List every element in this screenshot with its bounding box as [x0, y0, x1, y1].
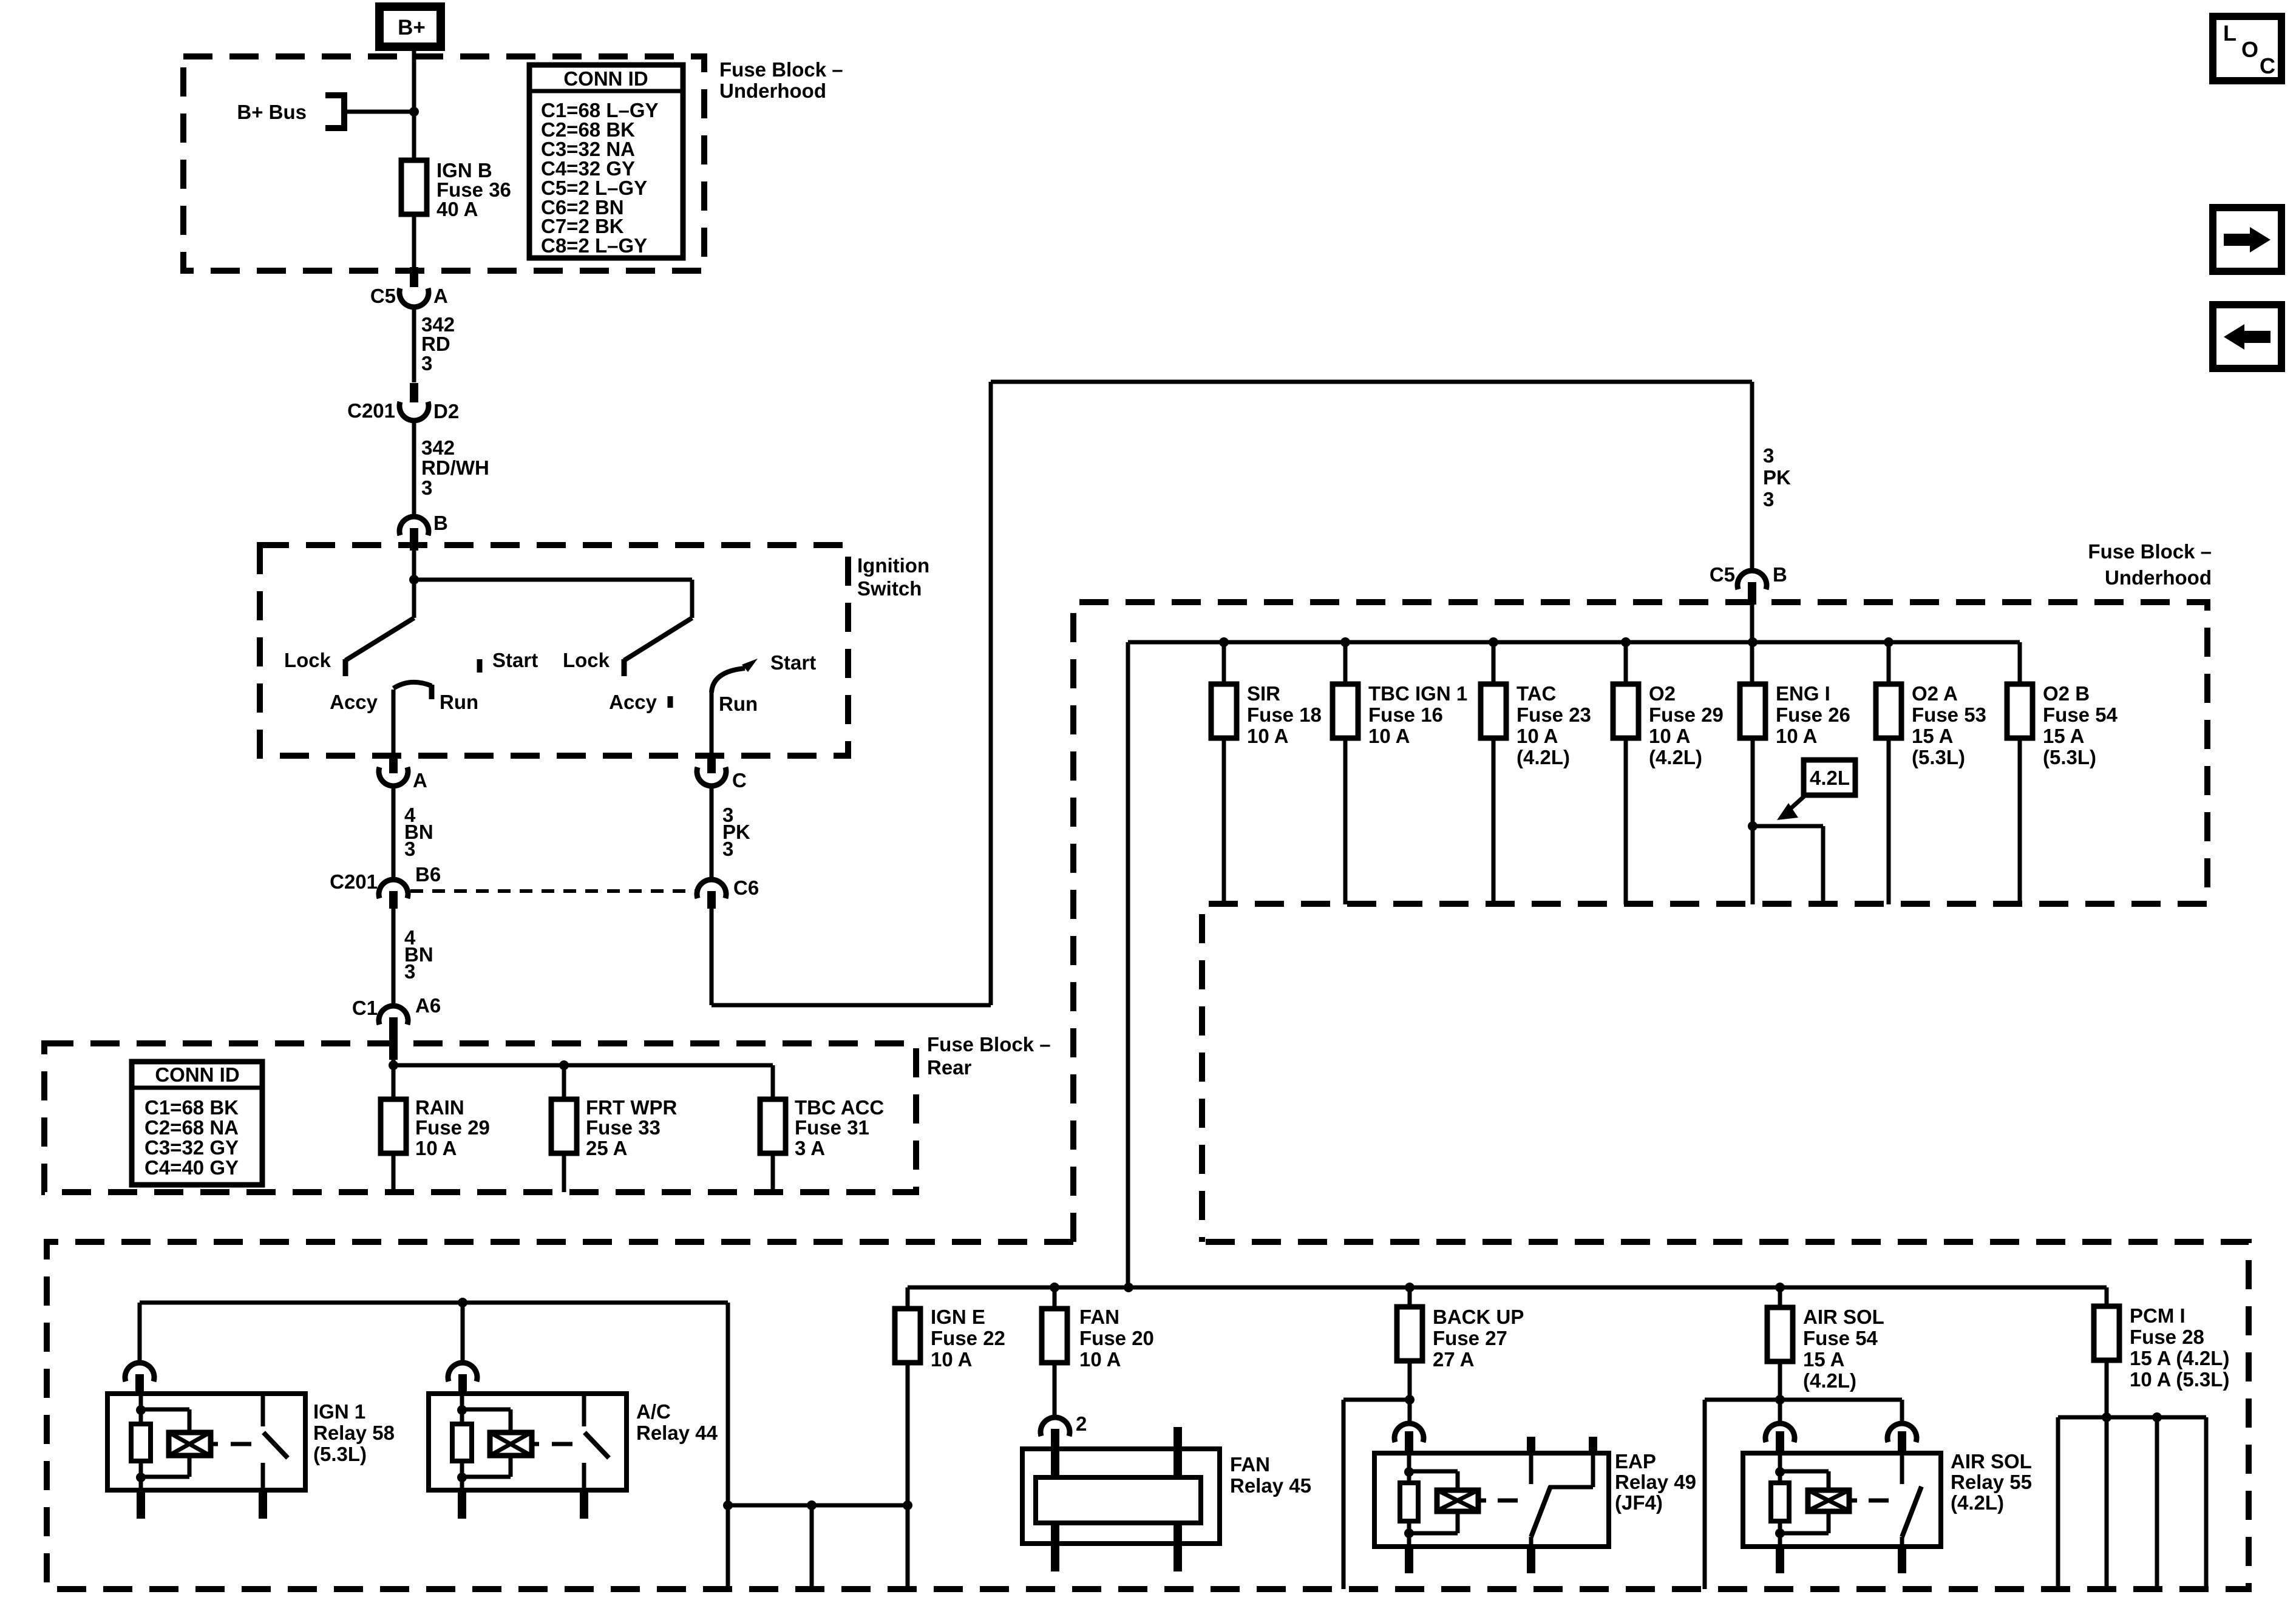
svg-text:O2 A: O2 A — [1912, 682, 1958, 705]
svg-text:PK: PK — [1763, 466, 1791, 489]
svg-text:27 A: 27 A — [1433, 1348, 1474, 1371]
svg-text:3 A: 3 A — [795, 1137, 825, 1159]
svg-text:(4.2L): (4.2L) — [1517, 746, 1570, 768]
svg-text:A/C: A/C — [636, 1400, 671, 1423]
svg-text:IGN 1: IGN 1 — [313, 1400, 365, 1423]
svg-text:O: O — [2241, 37, 2258, 62]
svg-text:3: 3 — [1763, 444, 1774, 467]
svg-text:Accy: Accy — [609, 691, 657, 713]
svg-text:Run: Run — [440, 691, 478, 713]
svg-text:Fuse 23: Fuse 23 — [1517, 703, 1591, 726]
svg-text:FAN: FAN — [1230, 1453, 1270, 1476]
svg-text:SIR: SIR — [1247, 682, 1280, 705]
svg-text:B+ Bus: B+ Bus — [237, 101, 307, 123]
svg-text:TBC ACC: TBC ACC — [795, 1096, 884, 1119]
svg-text:3: 3 — [404, 960, 415, 983]
svg-text:AIR SOL: AIR SOL — [1803, 1306, 1884, 1328]
svg-text:Fuse 54: Fuse 54 — [1803, 1327, 1878, 1349]
svg-text:15 A (4.2L): 15 A (4.2L) — [2130, 1347, 2229, 1369]
svg-text:Fuse Block –: Fuse Block – — [927, 1033, 1051, 1056]
svg-text:PCM I: PCM I — [2130, 1304, 2186, 1327]
svg-text:10 A: 10 A — [931, 1348, 972, 1371]
svg-text:C8=2 L–GY: C8=2 L–GY — [541, 234, 647, 257]
svg-text:ENG I: ENG I — [1776, 682, 1830, 705]
svg-text:C5: C5 — [370, 285, 396, 307]
svg-text:C6: C6 — [733, 876, 759, 899]
svg-text:Fuse 22: Fuse 22 — [931, 1327, 1005, 1349]
svg-text:Relay 45: Relay 45 — [1230, 1474, 1311, 1497]
svg-text:Fuse 27: Fuse 27 — [1433, 1327, 1507, 1349]
svg-text:10 A: 10 A — [1079, 1348, 1121, 1371]
svg-text:Rear: Rear — [927, 1056, 972, 1079]
svg-text:Relay 58: Relay 58 — [313, 1422, 395, 1444]
svg-text:RAIN: RAIN — [415, 1096, 464, 1119]
svg-text:(4.2L): (4.2L) — [1951, 1491, 2004, 1514]
svg-text:(4.2L): (4.2L) — [1649, 746, 1702, 768]
svg-text:Relay 49: Relay 49 — [1615, 1471, 1696, 1493]
svg-text:C: C — [2260, 53, 2275, 78]
svg-text:4.2L: 4.2L — [1810, 767, 1850, 789]
svg-text:Underhood: Underhood — [719, 80, 826, 102]
svg-text:Fuse 54: Fuse 54 — [2043, 703, 2118, 726]
svg-text:10 A: 10 A — [1368, 725, 1410, 747]
svg-text:Ignition: Ignition — [857, 554, 929, 577]
svg-text:342: 342 — [421, 436, 455, 459]
svg-text:Fuse 53: Fuse 53 — [1912, 703, 1986, 726]
svg-text:O2: O2 — [1649, 682, 1676, 705]
svg-text:Fuse 33: Fuse 33 — [586, 1116, 661, 1139]
svg-text:25 A: 25 A — [586, 1137, 627, 1159]
svg-text:C1: C1 — [352, 997, 378, 1019]
svg-text:B6: B6 — [415, 863, 441, 886]
svg-text:IGN E: IGN E — [931, 1306, 985, 1328]
svg-text:40 A: 40 A — [436, 198, 478, 220]
svg-text:Fuse Block –: Fuse Block – — [719, 58, 843, 81]
svg-text:Start: Start — [770, 651, 816, 674]
svg-text:Fuse 29: Fuse 29 — [415, 1116, 490, 1139]
svg-text:C2=68 NA: C2=68 NA — [144, 1116, 239, 1139]
svg-text:L: L — [2223, 21, 2237, 46]
svg-text:Fuse 31: Fuse 31 — [795, 1116, 869, 1139]
svg-text:Fuse 20: Fuse 20 — [1079, 1327, 1154, 1349]
svg-text:(5.3L): (5.3L) — [2043, 746, 2096, 768]
svg-text:TAC: TAC — [1517, 682, 1556, 705]
svg-text:Start: Start — [492, 649, 538, 671]
svg-text:AIR SOL: AIR SOL — [1951, 1450, 2032, 1473]
svg-text:(JF4): (JF4) — [1615, 1491, 1663, 1514]
svg-text:A: A — [413, 769, 427, 792]
svg-text:15 A: 15 A — [1912, 725, 1953, 747]
svg-text:Lock: Lock — [563, 649, 610, 671]
svg-text:CONN ID: CONN ID — [155, 1063, 239, 1086]
svg-text:3: 3 — [722, 838, 733, 860]
svg-text:Fuse 28: Fuse 28 — [2130, 1326, 2204, 1348]
svg-text:Run: Run — [719, 693, 758, 715]
svg-text:C: C — [732, 769, 747, 792]
svg-text:FAN: FAN — [1079, 1306, 1119, 1328]
svg-text:C4=40 GY: C4=40 GY — [144, 1156, 239, 1179]
svg-text:(5.3L): (5.3L) — [313, 1443, 367, 1465]
svg-text:10 A: 10 A — [1649, 725, 1690, 747]
svg-text:10 A: 10 A — [415, 1137, 457, 1159]
svg-text:RD/WH: RD/WH — [421, 456, 489, 479]
svg-text:B+: B+ — [398, 16, 426, 39]
svg-text:Fuse 18: Fuse 18 — [1247, 703, 1322, 726]
svg-text:3: 3 — [421, 352, 432, 375]
svg-text:O2 B: O2 B — [2043, 682, 2090, 705]
svg-text:TBC IGN 1: TBC IGN 1 — [1368, 682, 1467, 705]
svg-text:Switch: Switch — [857, 577, 922, 600]
svg-text:FRT WPR: FRT WPR — [586, 1096, 677, 1119]
svg-text:C3=32 GY: C3=32 GY — [144, 1136, 239, 1159]
svg-text:3: 3 — [421, 476, 432, 499]
svg-text:Accy: Accy — [330, 691, 378, 713]
svg-text:3: 3 — [404, 838, 415, 860]
svg-text:C201: C201 — [330, 870, 378, 893]
svg-text:C201: C201 — [347, 399, 395, 422]
svg-text:CONN ID: CONN ID — [563, 67, 648, 90]
svg-text:(4.2L): (4.2L) — [1803, 1369, 1856, 1392]
svg-text:Relay 55: Relay 55 — [1951, 1471, 2032, 1493]
svg-text:10 A: 10 A — [1776, 725, 1817, 747]
svg-text:Fuse 26: Fuse 26 — [1776, 703, 1850, 726]
svg-text:Fuse 16: Fuse 16 — [1368, 703, 1443, 726]
svg-text:10 A (5.3L): 10 A (5.3L) — [2130, 1368, 2229, 1391]
svg-text:Fuse 29: Fuse 29 — [1649, 703, 1724, 726]
svg-text:C1=68 BK: C1=68 BK — [144, 1096, 239, 1119]
svg-text:15 A: 15 A — [1803, 1348, 1844, 1371]
svg-text:D2: D2 — [433, 400, 459, 422]
svg-text:10 A: 10 A — [1517, 725, 1558, 747]
svg-text:Relay 44: Relay 44 — [636, 1422, 718, 1444]
svg-text:Lock: Lock — [284, 649, 331, 671]
svg-text:(5.3L): (5.3L) — [1912, 746, 1965, 768]
svg-text:B: B — [1773, 563, 1787, 586]
svg-text:BACK UP: BACK UP — [1433, 1306, 1524, 1328]
svg-text:A: A — [433, 285, 448, 307]
svg-text:Underhood: Underhood — [2105, 566, 2212, 589]
svg-text:C5: C5 — [1710, 563, 1735, 586]
svg-text:3: 3 — [1763, 488, 1774, 510]
svg-text:15 A: 15 A — [2043, 725, 2084, 747]
svg-text:A6: A6 — [415, 994, 441, 1017]
svg-text:2: 2 — [1076, 1412, 1087, 1435]
svg-text:10 A: 10 A — [1247, 725, 1288, 747]
svg-text:B: B — [433, 512, 448, 534]
svg-text:EAP: EAP — [1615, 1450, 1656, 1473]
svg-text:Fuse Block –: Fuse Block – — [2088, 540, 2212, 563]
